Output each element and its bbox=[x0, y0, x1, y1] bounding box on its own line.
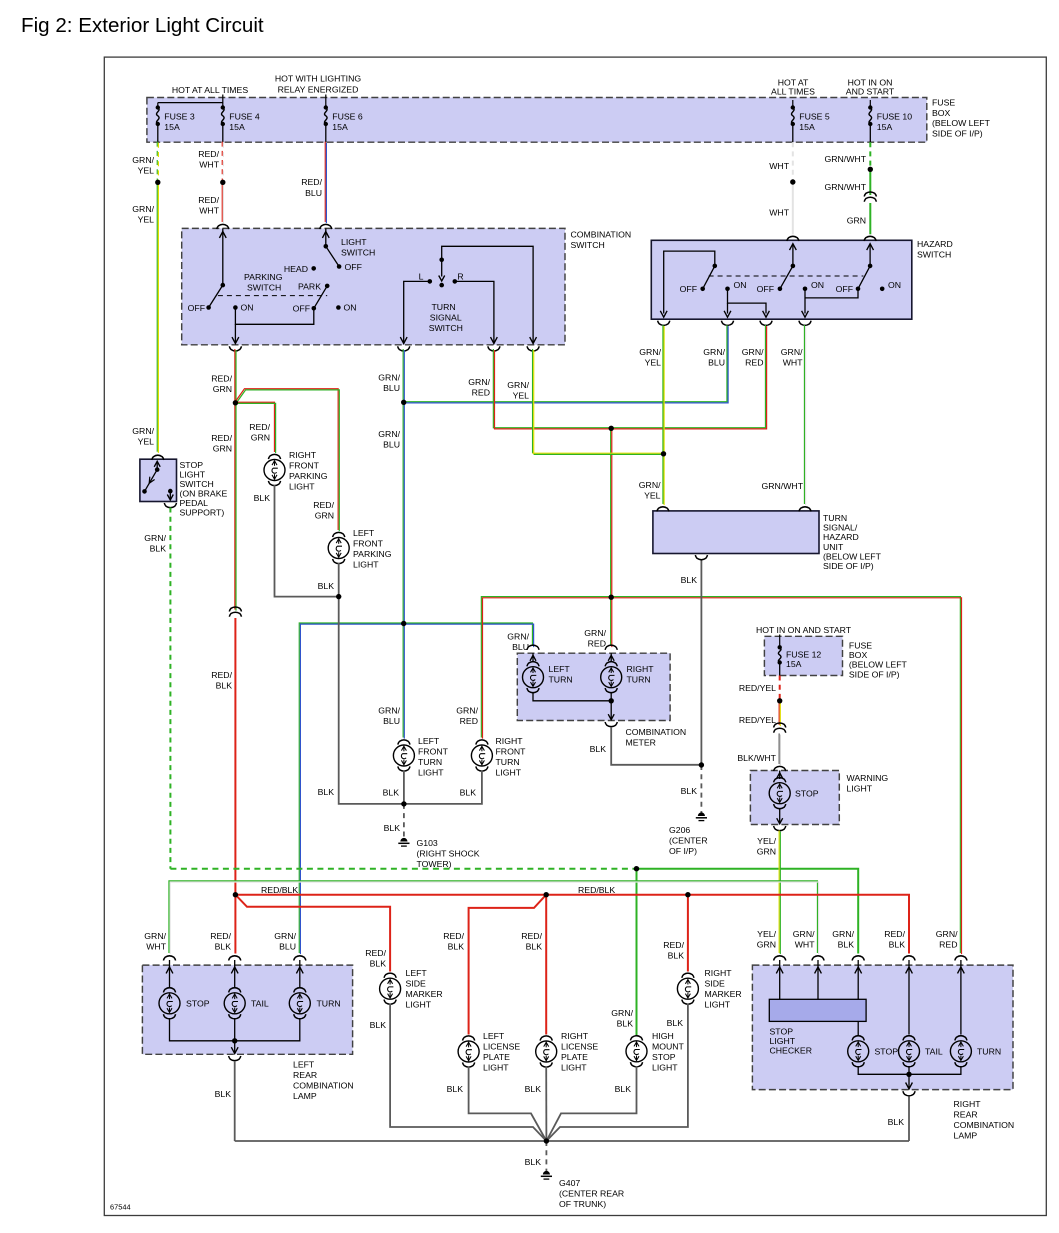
svg-text:GRN: GRN bbox=[213, 384, 232, 394]
svg-text:BLK: BLK bbox=[318, 581, 335, 591]
svg-text:BLK: BLK bbox=[681, 786, 698, 796]
svg-text:RIGHT: RIGHT bbox=[289, 450, 317, 460]
svg-text:FRONT: FRONT bbox=[418, 746, 449, 756]
svg-text:SIDE OF I/P): SIDE OF I/P) bbox=[932, 128, 983, 138]
svg-text:GRN/: GRN/ bbox=[132, 155, 154, 165]
svg-text:BLK: BLK bbox=[617, 1019, 634, 1029]
svg-text:BLK: BLK bbox=[590, 744, 607, 754]
svg-text:FUSE 10: FUSE 10 bbox=[877, 112, 912, 122]
svg-text:RED: RED bbox=[745, 358, 763, 368]
svg-text:GRN/: GRN/ bbox=[144, 533, 166, 543]
svg-text:UNIT: UNIT bbox=[823, 542, 844, 552]
svg-text:COMBINATION: COMBINATION bbox=[571, 230, 632, 240]
svg-text:RED/: RED/ bbox=[301, 177, 322, 187]
svg-text:HAZARD: HAZARD bbox=[917, 239, 953, 249]
svg-text:LEFT: LEFT bbox=[406, 968, 428, 978]
svg-text:BLK: BLK bbox=[447, 1084, 464, 1094]
svg-text:MARKER: MARKER bbox=[705, 989, 742, 999]
svg-text:LIGHT: LIGHT bbox=[418, 767, 444, 777]
svg-text:FUSE: FUSE bbox=[849, 641, 872, 651]
svg-text:BLK: BLK bbox=[668, 951, 685, 961]
svg-text:SIDE: SIDE bbox=[705, 978, 725, 988]
svg-text:GRN/: GRN/ bbox=[742, 347, 764, 357]
svg-text:LEFT: LEFT bbox=[353, 528, 375, 538]
svg-text:ON: ON bbox=[344, 303, 357, 313]
svg-text:GRN: GRN bbox=[757, 940, 776, 950]
svg-text:WHT: WHT bbox=[146, 942, 166, 952]
svg-text:OFF: OFF bbox=[345, 262, 362, 272]
svg-text:LEFT: LEFT bbox=[293, 1060, 315, 1070]
svg-text:YEL/: YEL/ bbox=[757, 929, 776, 939]
svg-text:(BELOW LEFT: (BELOW LEFT bbox=[823, 551, 882, 561]
svg-text:GRN/: GRN/ bbox=[507, 380, 529, 390]
svg-text:SIDE OF I/P): SIDE OF I/P) bbox=[823, 561, 874, 571]
svg-text:LICENSE: LICENSE bbox=[561, 1041, 598, 1051]
svg-text:ON: ON bbox=[811, 280, 824, 290]
svg-text:GRN/: GRN/ bbox=[378, 429, 400, 439]
svg-text:WHT: WHT bbox=[769, 208, 789, 218]
svg-text:FRONT: FRONT bbox=[496, 746, 527, 756]
svg-text:BOX: BOX bbox=[849, 650, 868, 660]
svg-text:BLK: BLK bbox=[525, 1157, 542, 1167]
svg-text:MOUNT: MOUNT bbox=[652, 1041, 685, 1051]
svg-text:GRN/: GRN/ bbox=[274, 931, 296, 941]
svg-text:RED/: RED/ bbox=[198, 149, 219, 159]
svg-text:TAIL: TAIL bbox=[251, 999, 269, 1009]
svg-text:LIGHT: LIGHT bbox=[483, 1062, 509, 1072]
svg-text:CHECKER: CHECKER bbox=[770, 1046, 812, 1056]
svg-text:COMBINATION: COMBINATION bbox=[293, 1080, 354, 1090]
svg-text:15A: 15A bbox=[799, 122, 815, 132]
svg-text:WHT: WHT bbox=[199, 206, 219, 216]
svg-text:SIGNAL/: SIGNAL/ bbox=[823, 523, 858, 533]
svg-text:ON: ON bbox=[888, 280, 901, 290]
svg-text:PLATE: PLATE bbox=[561, 1052, 588, 1062]
svg-text:GRN: GRN bbox=[251, 433, 270, 443]
svg-text:LIGHT: LIGHT bbox=[770, 1036, 796, 1046]
svg-text:BLK: BLK bbox=[838, 940, 855, 950]
svg-text:BLK: BLK bbox=[215, 1089, 232, 1099]
svg-text:RED/: RED/ bbox=[884, 929, 905, 939]
svg-text:YEL: YEL bbox=[138, 437, 155, 447]
svg-text:LIGHT: LIGHT bbox=[341, 237, 367, 247]
svg-text:(BELOW LEFT: (BELOW LEFT bbox=[849, 660, 908, 670]
svg-text:BOX: BOX bbox=[932, 108, 951, 118]
svg-text:BLK: BLK bbox=[254, 493, 271, 503]
svg-text:BLK: BLK bbox=[667, 1018, 684, 1028]
svg-text:RED/: RED/ bbox=[198, 195, 219, 205]
svg-text:LAMP: LAMP bbox=[293, 1091, 317, 1101]
svg-text:RED/BLK: RED/BLK bbox=[578, 885, 615, 895]
svg-text:BLU: BLU bbox=[708, 358, 725, 368]
svg-text:BLK: BLK bbox=[888, 1117, 905, 1127]
svg-text:YEL: YEL bbox=[645, 358, 662, 368]
svg-text:(CENTER: (CENTER bbox=[669, 835, 708, 845]
svg-text:YEL: YEL bbox=[644, 491, 661, 501]
svg-text:BLK: BLK bbox=[318, 787, 335, 797]
svg-text:(CENTER REAR: (CENTER REAR bbox=[559, 1188, 624, 1198]
svg-text:GRN/: GRN/ bbox=[781, 347, 803, 357]
svg-text:RED/: RED/ bbox=[365, 948, 386, 958]
svg-text:TURN: TURN bbox=[418, 757, 442, 767]
svg-text:AND START: AND START bbox=[846, 87, 895, 97]
svg-text:BLU: BLU bbox=[512, 642, 529, 652]
svg-text:YEL: YEL bbox=[138, 215, 155, 225]
svg-text:TURN: TURN bbox=[977, 1047, 1001, 1057]
svg-text:BLK: BLK bbox=[383, 788, 400, 798]
svg-text:OFF: OFF bbox=[188, 303, 205, 313]
svg-text:TAIL: TAIL bbox=[925, 1047, 943, 1057]
svg-text:LEFT: LEFT bbox=[549, 664, 571, 674]
svg-text:RED/: RED/ bbox=[443, 931, 464, 941]
svg-text:PARKING: PARKING bbox=[244, 272, 283, 282]
svg-text:GRN/: GRN/ bbox=[793, 929, 815, 939]
svg-text:HAZARD: HAZARD bbox=[823, 532, 859, 542]
svg-text:LIGHT: LIGHT bbox=[652, 1062, 678, 1072]
svg-text:YEL/: YEL/ bbox=[757, 836, 776, 846]
svg-text:BLK: BLK bbox=[384, 823, 401, 833]
svg-text:PLATE: PLATE bbox=[483, 1052, 510, 1062]
svg-text:BLK: BLK bbox=[681, 575, 698, 585]
svg-text:FUSE 5: FUSE 5 bbox=[799, 112, 830, 122]
svg-text:RED/: RED/ bbox=[211, 670, 232, 680]
svg-text:TURN: TURN bbox=[496, 757, 520, 767]
svg-text:SIDE OF I/P): SIDE OF I/P) bbox=[849, 669, 900, 679]
svg-text:COMBINATION: COMBINATION bbox=[626, 727, 687, 737]
svg-text:ON: ON bbox=[734, 280, 747, 290]
svg-text:RED: RED bbox=[460, 716, 478, 726]
svg-text:(RIGHT SHOCK: (RIGHT SHOCK bbox=[417, 848, 480, 858]
svg-text:PARK: PARK bbox=[298, 282, 321, 292]
svg-text:SUPPORT): SUPPORT) bbox=[180, 507, 225, 517]
svg-text:SWITCH: SWITCH bbox=[429, 323, 463, 333]
svg-text:SIGNAL: SIGNAL bbox=[430, 313, 462, 323]
svg-text:ON: ON bbox=[241, 303, 254, 313]
svg-text:STOP: STOP bbox=[795, 789, 819, 799]
svg-text:BLK: BLK bbox=[215, 942, 232, 952]
svg-text:LICENSE: LICENSE bbox=[483, 1041, 520, 1051]
svg-text:YEL: YEL bbox=[513, 391, 530, 401]
svg-text:GRN/: GRN/ bbox=[639, 347, 661, 357]
svg-text:SWITCH: SWITCH bbox=[341, 248, 375, 258]
svg-text:Fig 2: Exterior Light Circuit: Fig 2: Exterior Light Circuit bbox=[21, 14, 264, 37]
svg-text:15A: 15A bbox=[877, 122, 893, 132]
svg-text:YEL: YEL bbox=[138, 166, 155, 176]
svg-text:REAR: REAR bbox=[954, 1109, 978, 1119]
svg-text:RED/: RED/ bbox=[211, 374, 232, 384]
svg-text:BLK: BLK bbox=[370, 1020, 387, 1030]
svg-text:RED: RED bbox=[588, 639, 606, 649]
svg-text:TURN: TURN bbox=[432, 302, 456, 312]
svg-text:FUSE 6: FUSE 6 bbox=[332, 112, 363, 122]
svg-text:STOP: STOP bbox=[875, 1047, 899, 1057]
svg-text:15A: 15A bbox=[786, 659, 802, 669]
svg-text:WHT: WHT bbox=[199, 160, 219, 170]
svg-text:SWITCH: SWITCH bbox=[247, 283, 281, 293]
svg-text:RIGHT: RIGHT bbox=[954, 1099, 982, 1109]
svg-text:FUSE 3: FUSE 3 bbox=[164, 112, 195, 122]
svg-text:G103: G103 bbox=[417, 838, 438, 848]
svg-text:OFF: OFF bbox=[293, 304, 310, 314]
svg-text:OFF: OFF bbox=[680, 284, 697, 294]
svg-text:GRN/: GRN/ bbox=[639, 480, 661, 490]
svg-text:GRN: GRN bbox=[757, 847, 776, 857]
svg-text:BLU: BLU bbox=[305, 188, 322, 198]
svg-text:PARKING: PARKING bbox=[289, 471, 328, 481]
svg-text:STOP: STOP bbox=[652, 1052, 676, 1062]
svg-text:HOT WITH LIGHTING: HOT WITH LIGHTING bbox=[275, 74, 361, 84]
svg-text:RED/: RED/ bbox=[249, 422, 270, 432]
svg-text:BLK: BLK bbox=[526, 942, 543, 952]
svg-text:G206: G206 bbox=[669, 825, 690, 835]
svg-text:GRN: GRN bbox=[847, 216, 866, 226]
svg-text:BLK/WHT: BLK/WHT bbox=[737, 753, 776, 763]
svg-text:GRN/: GRN/ bbox=[611, 1008, 633, 1018]
svg-text:LEFT: LEFT bbox=[483, 1031, 505, 1041]
svg-text:67544: 67544 bbox=[110, 1203, 131, 1212]
svg-text:G407: G407 bbox=[559, 1178, 580, 1188]
svg-text:RED/: RED/ bbox=[521, 931, 542, 941]
svg-text:BLK: BLK bbox=[448, 942, 465, 952]
svg-text:RED/YEL: RED/YEL bbox=[739, 715, 776, 725]
svg-text:GRN/: GRN/ bbox=[468, 377, 490, 387]
svg-text:L: L bbox=[419, 272, 424, 282]
svg-text:BLK: BLK bbox=[615, 1084, 632, 1094]
svg-text:WHT: WHT bbox=[795, 940, 815, 950]
svg-text:TURN: TURN bbox=[317, 999, 341, 1009]
svg-text:LIGHT: LIGHT bbox=[561, 1062, 587, 1072]
svg-text:RED/: RED/ bbox=[313, 500, 334, 510]
svg-text:HEAD: HEAD bbox=[284, 264, 308, 274]
svg-text:STOP: STOP bbox=[770, 1027, 794, 1037]
svg-text:MARKER: MARKER bbox=[406, 989, 443, 999]
svg-text:TURN: TURN bbox=[823, 513, 847, 523]
svg-text:RED: RED bbox=[472, 388, 490, 398]
svg-text:GRN/WHT: GRN/WHT bbox=[825, 182, 867, 192]
svg-text:GRN/: GRN/ bbox=[584, 628, 606, 638]
svg-text:BLU: BLU bbox=[383, 383, 400, 393]
svg-text:GRN/: GRN/ bbox=[936, 929, 958, 939]
svg-text:LEFT: LEFT bbox=[418, 736, 440, 746]
svg-text:GRN/: GRN/ bbox=[132, 204, 154, 214]
svg-text:WHT: WHT bbox=[769, 161, 789, 171]
svg-text:FUSE 12: FUSE 12 bbox=[786, 650, 821, 660]
svg-text:BLK: BLK bbox=[370, 959, 387, 969]
svg-text:(BELOW LEFT: (BELOW LEFT bbox=[932, 118, 991, 128]
svg-text:15A: 15A bbox=[229, 122, 245, 132]
svg-text:GRN/: GRN/ bbox=[832, 929, 854, 939]
svg-text:BLK: BLK bbox=[889, 940, 906, 950]
svg-text:HOT AT ALL TIMES: HOT AT ALL TIMES bbox=[172, 85, 248, 95]
svg-text:WHT: WHT bbox=[783, 358, 803, 368]
svg-text:RELAY ENERGIZED: RELAY ENERGIZED bbox=[278, 85, 359, 95]
svg-text:FUSE 4: FUSE 4 bbox=[229, 112, 260, 122]
svg-text:FRONT: FRONT bbox=[353, 538, 384, 548]
svg-text:OF I/P): OF I/P) bbox=[669, 846, 697, 856]
svg-text:REAR: REAR bbox=[293, 1070, 317, 1080]
svg-text:LIGHT: LIGHT bbox=[496, 767, 522, 777]
svg-text:COMBINATION: COMBINATION bbox=[954, 1120, 1015, 1130]
svg-text:RIGHT: RIGHT bbox=[705, 968, 733, 978]
svg-text:BLU: BLU bbox=[383, 440, 400, 450]
svg-text:TURN: TURN bbox=[627, 675, 651, 685]
svg-text:GRN/: GRN/ bbox=[456, 706, 478, 716]
svg-text:BLK: BLK bbox=[525, 1084, 542, 1094]
svg-text:15A: 15A bbox=[164, 122, 180, 132]
svg-text:LIGHT: LIGHT bbox=[406, 999, 432, 1009]
svg-text:TURN: TURN bbox=[549, 675, 573, 685]
svg-text:HIGH: HIGH bbox=[652, 1031, 674, 1041]
svg-text:GRN/: GRN/ bbox=[132, 426, 154, 436]
svg-text:TOWER): TOWER) bbox=[417, 859, 452, 869]
svg-text:GRN: GRN bbox=[213, 444, 232, 454]
svg-text:RED/: RED/ bbox=[211, 433, 232, 443]
svg-text:GRN/: GRN/ bbox=[703, 347, 725, 357]
svg-text:GRN/: GRN/ bbox=[378, 706, 400, 716]
svg-text:LIGHT: LIGHT bbox=[353, 559, 379, 569]
svg-text:GRN: GRN bbox=[315, 511, 334, 521]
svg-text:LAMP: LAMP bbox=[954, 1130, 978, 1140]
svg-text:RED: RED bbox=[939, 940, 957, 950]
svg-text:GRN/WHT: GRN/WHT bbox=[762, 481, 804, 491]
svg-text:BLU: BLU bbox=[383, 716, 400, 726]
svg-text:RED/: RED/ bbox=[663, 940, 684, 950]
svg-text:RED/YEL: RED/YEL bbox=[739, 683, 776, 693]
svg-text:LIGHT: LIGHT bbox=[847, 784, 873, 794]
svg-text:GRN/WHT: GRN/WHT bbox=[825, 154, 867, 164]
svg-text:RIGHT: RIGHT bbox=[496, 736, 524, 746]
svg-text:GRN/: GRN/ bbox=[144, 931, 166, 941]
svg-text:FRONT: FRONT bbox=[289, 460, 320, 470]
svg-text:SIDE: SIDE bbox=[406, 978, 426, 988]
svg-text:WARNING: WARNING bbox=[847, 773, 889, 783]
svg-text:METER: METER bbox=[626, 738, 656, 748]
svg-text:HOT IN ON AND START: HOT IN ON AND START bbox=[756, 625, 852, 635]
svg-text:OF TRUNK): OF TRUNK) bbox=[559, 1199, 606, 1209]
svg-text:STOP: STOP bbox=[186, 999, 210, 1009]
svg-text:LIGHT: LIGHT bbox=[289, 481, 315, 491]
svg-text:BLU: BLU bbox=[279, 942, 296, 952]
svg-text:BLK: BLK bbox=[150, 544, 167, 554]
svg-text:RIGHT: RIGHT bbox=[561, 1031, 589, 1041]
svg-text:RIGHT: RIGHT bbox=[627, 664, 655, 674]
svg-text:PARKING: PARKING bbox=[353, 549, 392, 559]
svg-text:RED/BLK: RED/BLK bbox=[261, 885, 298, 895]
svg-text:SWITCH: SWITCH bbox=[917, 250, 951, 260]
svg-text:BLK: BLK bbox=[460, 788, 477, 798]
svg-text:OFF: OFF bbox=[757, 284, 774, 294]
svg-text:GRN/: GRN/ bbox=[507, 632, 529, 642]
svg-text:15A: 15A bbox=[332, 122, 348, 132]
svg-text:GRN/: GRN/ bbox=[378, 373, 400, 383]
svg-text:ALL TIMES: ALL TIMES bbox=[771, 87, 815, 97]
svg-text:SWITCH: SWITCH bbox=[571, 240, 605, 250]
svg-text:BLK: BLK bbox=[216, 681, 233, 691]
svg-text:RED/: RED/ bbox=[210, 931, 231, 941]
svg-text:FUSE: FUSE bbox=[932, 98, 955, 108]
svg-text:OFF: OFF bbox=[836, 284, 853, 294]
svg-text:LIGHT: LIGHT bbox=[705, 999, 731, 1009]
svg-text:R: R bbox=[457, 272, 463, 282]
